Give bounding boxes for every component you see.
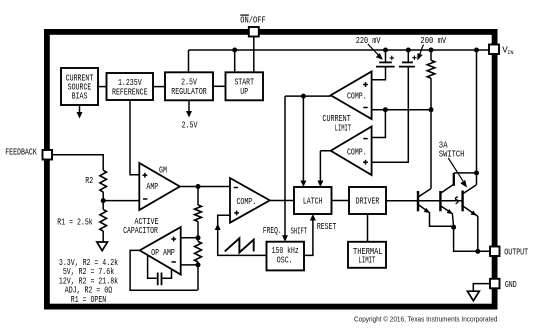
svg-text:CAPACITOR: CAPACITOR xyxy=(123,226,158,236)
svg-text:200 mV: 200 mV xyxy=(420,36,446,46)
svg-text:R1 = OPEN: R1 = OPEN xyxy=(71,295,107,305)
svg-text:LATCH: LATCH xyxy=(303,197,323,207)
svg-text:OUTPUT: OUTPUT xyxy=(504,248,528,258)
svg-text:LIMIT: LIMIT xyxy=(335,123,352,133)
svg-text:SHIFT: SHIFT xyxy=(290,226,307,236)
svg-text:OP AMP: OP AMP xyxy=(151,248,175,258)
svg-text:DRIVER: DRIVER xyxy=(356,197,380,207)
svg-text:COMP.: COMP. xyxy=(236,197,256,207)
svg-text:AMP: AMP xyxy=(146,182,158,192)
svg-text:OSC.: OSC. xyxy=(277,256,293,266)
svg-text:R1 = 2.5k: R1 = 2.5k xyxy=(57,217,93,227)
svg-text:REFERENCE: REFERENCE xyxy=(112,88,148,98)
svg-text:COMP.: COMP. xyxy=(347,147,367,157)
svg-text:220 mV: 220 mV xyxy=(356,36,381,46)
svg-text:RESET: RESET xyxy=(317,222,337,232)
svg-text:ON/OFF: ON/OFF xyxy=(240,16,266,26)
svg-text:GND: GND xyxy=(505,280,517,290)
svg-text:UP: UP xyxy=(240,87,248,97)
svg-text:COMP.: COMP. xyxy=(347,92,367,102)
svg-text:R2: R2 xyxy=(85,176,93,186)
svg-text:LIMIT: LIMIT xyxy=(358,256,375,266)
svg-text:REGULATOR: REGULATOR xyxy=(171,87,207,97)
svg-text:IN: IN xyxy=(507,49,514,56)
svg-text:BIAS: BIAS xyxy=(72,92,88,102)
svg-text:Copyright © 2016, Texas Instru: Copyright © 2016, Texas Instruments Inco… xyxy=(354,314,498,323)
svg-text:FREQ.: FREQ. xyxy=(263,226,282,236)
svg-text:SWITCH: SWITCH xyxy=(439,149,465,159)
svg-text:GM: GM xyxy=(159,165,167,175)
svg-text:FEEDBACK: FEEDBACK xyxy=(5,147,37,157)
svg-text:2.5V: 2.5V xyxy=(182,121,198,131)
